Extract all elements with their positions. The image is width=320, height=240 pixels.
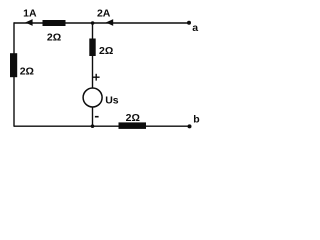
svg-text:2Ω: 2Ω bbox=[99, 45, 113, 57]
wire middle between resistor and source bbox=[92, 55, 94, 88]
svg-text:a: a bbox=[192, 22, 198, 34]
svg-text:Us: Us bbox=[105, 94, 119, 106]
wire top bbox=[14, 22, 189, 24]
wire middle top bbox=[92, 23, 94, 40]
wire left bbox=[13, 22, 15, 126]
svg-text:2A: 2A bbox=[97, 7, 111, 19]
plus sign of source bbox=[93, 74, 100, 81]
resistor R3 2ohm left bbox=[10, 53, 17, 77]
resistor R4 2ohm bottom bbox=[119, 122, 147, 128]
node junction bottom bbox=[91, 124, 95, 128]
current arrow 1A bbox=[25, 19, 32, 26]
current arrow 2A bbox=[106, 19, 113, 26]
voltage source Us circle bbox=[83, 88, 102, 107]
resistor R1 2ohm top bbox=[43, 20, 66, 26]
wire middle bottom bbox=[92, 107, 94, 126]
svg-text:1A: 1A bbox=[23, 7, 37, 19]
svg-text:b: b bbox=[193, 113, 199, 125]
resistor R2 2ohm middle bbox=[89, 39, 95, 57]
node junction top bbox=[91, 21, 95, 25]
svg-text:2Ω: 2Ω bbox=[47, 31, 61, 43]
minus sign of source bbox=[95, 116, 99, 118]
wire bottom bbox=[14, 125, 190, 127]
terminal a node bbox=[187, 21, 191, 25]
svg-text:2Ω: 2Ω bbox=[126, 112, 140, 124]
terminal b node bbox=[188, 124, 192, 128]
svg-text:2Ω: 2Ω bbox=[20, 65, 34, 77]
